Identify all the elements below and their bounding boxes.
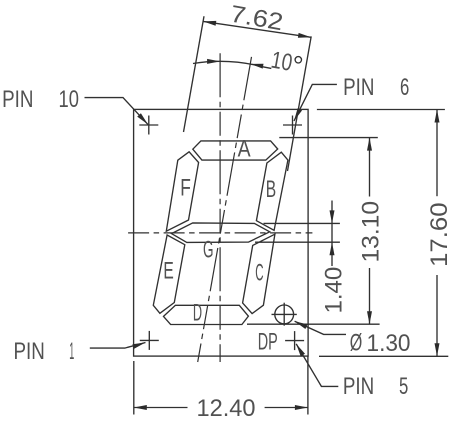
1.40 arrow lower (pointing up) [330, 242, 335, 255]
svg-text:PIN: PIN [343, 74, 374, 101]
17.60 dimension line lower part [436, 275, 438, 356]
PIN 1 text [14, 338, 75, 365]
13.10 arrow top [367, 138, 372, 151]
segment B outline [256, 152, 288, 230]
diameter 1.30 leader line [295, 321, 346, 334]
17.60 arrow bottom [435, 343, 440, 356]
degree symbol [295, 57, 301, 63]
svg-text:7.62: 7.62 [228, 1, 285, 37]
svg-text:Ø: Ø [350, 329, 363, 356]
1.40 dimension line [331, 201, 333, 267]
svg-text:E: E [163, 257, 173, 284]
12.40 dimension line right part [265, 407, 308, 409]
svg-text:D: D [193, 300, 202, 327]
17.60 dimension line upper part [436, 110, 438, 197]
svg-text:1.30: 1.30 [367, 330, 411, 357]
12.40 extension line right [307, 357, 309, 415]
7.62 dimension arrow right [298, 33, 311, 38]
segment C outline [243, 234, 275, 313]
segment E outline [153, 235, 185, 313]
PIN 10 leader arrow [137, 113, 148, 124]
7.62 dimension line [203, 21, 311, 37]
segment A outline [193, 141, 278, 160]
diameter 1.30 text [350, 329, 411, 357]
diameter 1.30 leader arrow [295, 321, 308, 329]
10-degree leader tail [263, 67, 272, 69]
PIN 5 leader arrow [296, 344, 305, 357]
svg-text:PIN: PIN [14, 338, 45, 365]
PIN 10 text [2, 86, 79, 113]
PIN 1 leader [90, 343, 146, 349]
pin 1 cross marker (bottom-left) [140, 331, 159, 350]
17.60 extension line top [317, 109, 445, 111]
17.60 arrow top [435, 110, 440, 123]
svg-text:PIN: PIN [2, 86, 33, 113]
svg-text:F: F [180, 175, 191, 202]
13.10 dimension line lower part [369, 268, 371, 324]
package outline rectangle [134, 109, 309, 356]
PIN 6 leader [294, 84, 337, 121]
7.62 dimension extension line left [184, 16, 205, 132]
12.40 extension line left [133, 361, 135, 415]
pin 5 cross marker (bottom-right) [285, 331, 304, 350]
PIN 5 leader [296, 344, 338, 387]
7.62 dimension extension line right [288, 36, 312, 171]
PIN 6 text [343, 74, 409, 101]
svg-text:1.40: 1.40 [320, 267, 347, 314]
10-degree angle arrow at tilted line [250, 64, 263, 69]
svg-text:10: 10 [59, 86, 79, 113]
segment G outline [172, 223, 270, 243]
svg-text:B: B [266, 176, 276, 203]
pin 6 cross marker (top-right) [283, 116, 302, 135]
PIN 1 leader arrow [132, 343, 145, 349]
PIN 10 leader [85, 98, 148, 125]
svg-text:A: A [238, 135, 251, 162]
7.62 dimension arrow left [203, 21, 216, 26]
svg-text:C: C [255, 260, 263, 287]
svg-text:G: G [203, 237, 214, 264]
1.40 arrow upper (pointing down) [330, 210, 335, 223]
svg-text:10: 10 [269, 47, 294, 77]
horizontal center line [128, 232, 312, 234]
svg-text:6: 6 [400, 74, 409, 101]
13.10 extension line top [279, 137, 378, 139]
svg-text:5: 5 [399, 373, 408, 400]
tilted 10-degree center line [198, 57, 252, 362]
PIN 5 text [343, 373, 408, 400]
svg-text:DP: DP [258, 329, 278, 356]
17.60 extension line bottom [319, 355, 448, 357]
segment F outline [166, 152, 198, 231]
PIN 6 leader arrow [294, 108, 302, 121]
svg-text:PIN: PIN [343, 373, 374, 400]
12.40 arrow right [295, 405, 308, 410]
pin 10 cross marker (top-left) [139, 116, 158, 135]
13.10 extension line bottom [247, 323, 380, 325]
decimal point hole circle with cross [272, 303, 297, 326]
10-degree angle arc [193, 61, 263, 66]
13.10 arrow bottom [367, 311, 372, 324]
svg-text:13.10: 13.10 [358, 201, 385, 263]
13.10 dimension line upper part [369, 138, 371, 197]
svg-text:17.60: 17.60 [426, 202, 453, 267]
segment D outline [164, 305, 249, 324]
1.40 extension line upper [264, 222, 340, 224]
svg-text:12.40: 12.40 [197, 395, 256, 422]
svg-text:1: 1 [69, 338, 74, 365]
vertical center line [219, 53, 221, 362]
10-degree angle arrow at vertical line [207, 59, 220, 64]
12.40 dimension line left part [134, 407, 188, 409]
12.40 arrow left [134, 405, 147, 410]
1.40 extension line lower [255, 241, 340, 243]
